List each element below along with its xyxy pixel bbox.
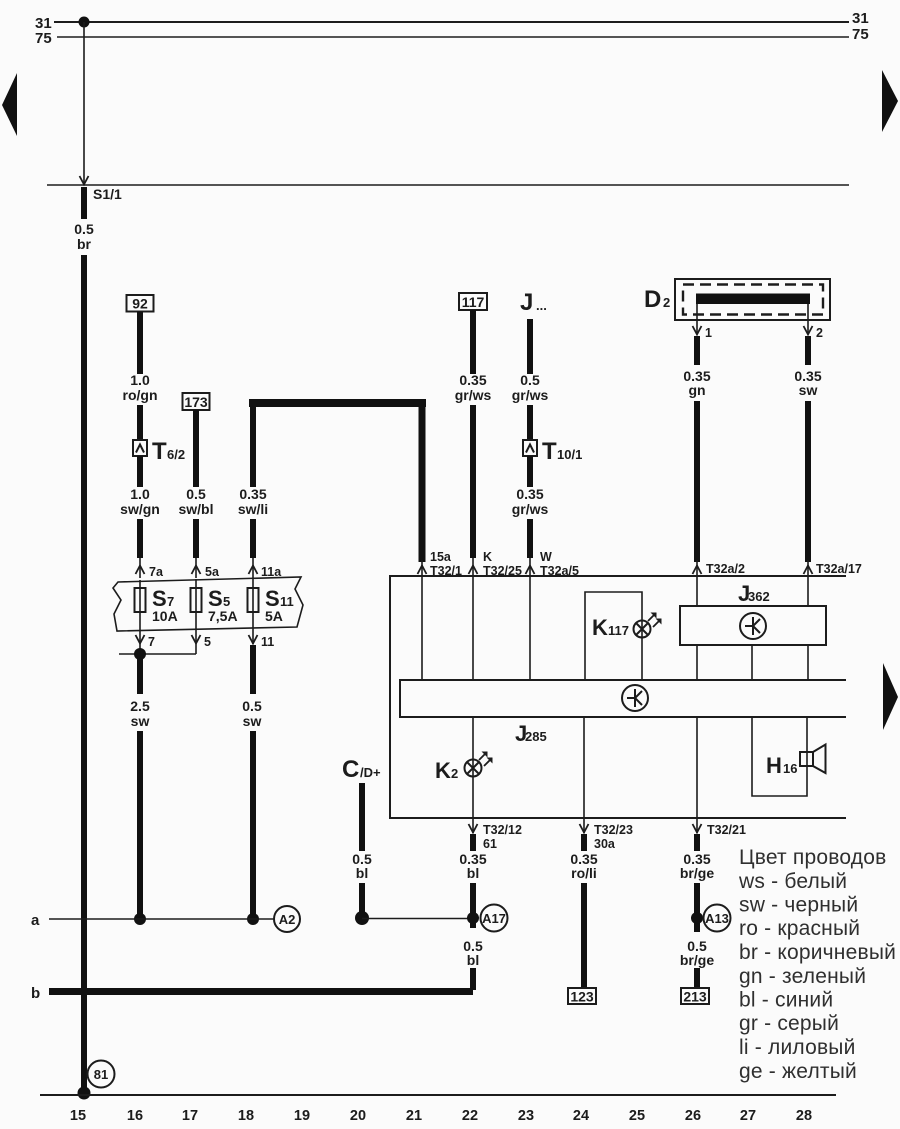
svg-text:1.0: 1.0 <box>130 486 150 502</box>
D2 pin 2 <box>807 304 809 334</box>
wire 0.5 br (track 15) <box>81 187 87 219</box>
svg-text:sw/li: sw/li <box>238 501 268 517</box>
svg-text:18: 18 <box>238 1108 254 1124</box>
svg-text:2: 2 <box>451 766 458 781</box>
svg-text:0.5: 0.5 <box>186 486 206 502</box>
svg-text:ge - желтый: ge - желтый <box>739 1060 857 1083</box>
pin 5 arrow below fuse <box>195 631 197 654</box>
svg-text:bl: bl <box>467 952 479 968</box>
svg-text:27: 27 <box>740 1108 756 1124</box>
svg-text:10/1: 10/1 <box>557 447 582 462</box>
svg-text:K: K <box>592 615 608 640</box>
page-edge arrow left <box>2 73 17 136</box>
svg-text:...: ... <box>536 298 547 313</box>
svg-text:T: T <box>542 438 557 465</box>
svg-text:sw: sw <box>243 713 262 729</box>
D2 outer box <box>675 279 830 320</box>
svg-text:117: 117 <box>608 623 629 638</box>
wire from bus 31 down to S1/1 line <box>83 22 85 183</box>
svg-text:7: 7 <box>167 594 174 609</box>
svg-text:T32a/17: T32a/17 <box>816 562 862 576</box>
svg-text:30a: 30a <box>594 837 616 851</box>
svg-text:2: 2 <box>663 295 670 310</box>
svg-text:31: 31 <box>852 10 869 27</box>
wire 0.35 sw/li hook to T32/1 <box>249 399 426 407</box>
pin T32/23 arrow <box>583 818 585 833</box>
wire 0.35 gn (track 26) <box>694 336 700 365</box>
J285 internal bus bar <box>400 680 846 717</box>
svg-text:5: 5 <box>223 594 230 609</box>
control unit J285 box outline <box>390 576 846 818</box>
terminal box 92 <box>127 295 154 312</box>
terminal circle 81 <box>88 1061 115 1088</box>
svg-text:7: 7 <box>148 635 155 649</box>
svg-text:24: 24 <box>573 1108 589 1124</box>
terminal box 213 <box>681 988 709 1004</box>
svg-text:173: 173 <box>184 394 208 410</box>
hook wire right leg down to J285 <box>419 403 426 562</box>
fuse S11 5A <box>252 579 254 631</box>
svg-text:0.5: 0.5 <box>74 221 94 237</box>
svg-text:T32a/2: T32a/2 <box>706 562 745 576</box>
svg-text:15: 15 <box>70 1108 86 1124</box>
pin T32a/2 arrow <box>696 560 698 576</box>
svg-text:a: a <box>31 912 40 929</box>
junction on bus 31 <box>79 17 90 28</box>
display unit J362 box <box>680 606 826 645</box>
svg-text:0.35: 0.35 <box>516 486 543 502</box>
svg-text:11: 11 <box>280 594 294 609</box>
S1/1 separation line <box>47 184 849 186</box>
svg-text:W: W <box>540 550 552 564</box>
junction dot A13 <box>691 912 703 924</box>
wire 0.35 gr/ws (track 22) <box>470 310 476 374</box>
arrowhead at S1/1 <box>80 176 89 185</box>
J362 lead 2 to bar <box>751 645 753 680</box>
svg-text:D: D <box>644 286 661 313</box>
K117 branch rectangle <box>585 592 642 680</box>
svg-text:sw/gn: sw/gn <box>120 501 160 517</box>
svg-text:br/ge: br/ge <box>680 865 714 881</box>
svg-text:1: 1 <box>705 326 712 340</box>
terminal box 123 <box>568 988 596 1004</box>
pin 11 arrow below fuse <box>252 631 254 644</box>
fuse S7 10A <box>139 580 141 631</box>
svg-text:bl: bl <box>356 865 368 881</box>
pin T32/1 arrow <box>421 560 423 576</box>
svg-text:92: 92 <box>132 296 148 312</box>
wire 0.5 gr/ws (track 23) <box>527 319 533 374</box>
svg-text:285: 285 <box>525 729 547 744</box>
page-edge arrow right top <box>882 70 898 132</box>
pin 7a arrow <box>139 558 141 578</box>
svg-text:sw: sw <box>799 382 818 398</box>
svg-text:sw: sw <box>131 713 150 729</box>
svg-text:ro - красный: ro - красный <box>739 917 860 940</box>
svg-text:61: 61 <box>483 837 497 851</box>
svg-text:5a: 5a <box>205 565 220 579</box>
svg-text:28: 28 <box>796 1108 812 1124</box>
svg-text:sw/bl: sw/bl <box>178 501 213 517</box>
svg-text:H: H <box>766 753 782 778</box>
svg-text:gr/ws: gr/ws <box>512 501 549 517</box>
svg-text:br - коричневый: br - коричневый <box>739 941 896 964</box>
svg-text:S1/1: S1/1 <box>93 186 122 202</box>
wire 0.5 sw (track 18) <box>250 645 256 694</box>
J285 lead to T32/21 <box>696 717 698 818</box>
svg-text:ro/gn: ro/gn <box>123 387 158 403</box>
J362 lead 3 to bar <box>807 645 809 680</box>
J362 display symbol <box>740 613 766 639</box>
svg-text:2.5: 2.5 <box>130 698 150 714</box>
node circle A2 <box>274 906 300 932</box>
svg-text:br/ge: br/ge <box>680 952 714 968</box>
bus 31 line <box>54 21 849 23</box>
svg-text:ro/li: ro/li <box>571 865 597 881</box>
svg-text:0.5: 0.5 <box>520 372 540 388</box>
svg-text:bl - синий: bl - синий <box>739 989 833 1012</box>
svg-text:b: b <box>31 985 40 1002</box>
svg-text:0.35: 0.35 <box>459 372 486 388</box>
svg-text:ws - белый: ws - белый <box>738 870 847 893</box>
J362 lead 1 to bar <box>696 645 698 680</box>
node circle A17 <box>481 905 508 932</box>
J285 internal lead T32/25 <box>472 576 474 680</box>
svg-text:362: 362 <box>748 589 770 604</box>
svg-text:11: 11 <box>261 635 274 649</box>
D2 dashed inner box <box>683 285 823 315</box>
svg-text:10A: 10A <box>152 608 178 624</box>
connector T10/1 <box>523 440 537 456</box>
svg-text:K: K <box>483 550 492 564</box>
fuse S5 7,5A <box>195 579 197 631</box>
svg-text:17: 17 <box>182 1108 198 1124</box>
ground dot at bottom of br wire <box>78 1087 91 1100</box>
wire 1.0 sw/gn <box>137 456 143 487</box>
svg-text:123: 123 <box>570 989 594 1005</box>
svg-text:23: 23 <box>518 1108 534 1124</box>
svg-text:6/2: 6/2 <box>167 447 185 462</box>
pin 7 arrow below fuse <box>139 631 141 650</box>
svg-text:5: 5 <box>204 635 211 649</box>
svg-text:16: 16 <box>127 1108 143 1124</box>
J285 lead to T32/12 <box>472 717 474 818</box>
node line b <box>49 988 473 995</box>
svg-text:7a: 7a <box>149 565 164 579</box>
svg-text:Цвет проводов: Цвет проводов <box>739 846 886 869</box>
wire 2.5 sw (track 16) <box>137 654 143 694</box>
pin 11a arrow <box>252 558 254 578</box>
wire 0.35 br/ge (track 26) <box>694 834 700 851</box>
J285 internal lead T32a/5 <box>529 576 531 680</box>
svg-text:2: 2 <box>816 326 823 340</box>
svg-text:0.35: 0.35 <box>239 486 266 502</box>
svg-text:0.5: 0.5 <box>242 698 262 714</box>
wire 0.35 bl (track 22 lower) <box>470 834 476 851</box>
svg-text:K: K <box>435 758 451 783</box>
bus 75 line <box>57 36 849 38</box>
svg-text:li - лиловый: li - лиловый <box>739 1036 856 1059</box>
node line a2 <box>362 918 472 920</box>
wire 0.5 bl from C/D+ <box>359 783 365 851</box>
svg-text:20: 20 <box>350 1108 366 1124</box>
pin T32/25 arrow <box>472 558 474 576</box>
svg-text:5A: 5A <box>265 608 283 624</box>
pin T32/21 arrow <box>696 818 698 833</box>
bus bar display symbol <box>622 685 648 711</box>
svg-text:br: br <box>77 236 92 252</box>
svg-text:21: 21 <box>406 1108 422 1124</box>
J285 lead to T32/23 <box>583 717 585 818</box>
H16 branch loop <box>752 717 807 796</box>
svg-text:25: 25 <box>629 1108 645 1124</box>
pin T32a/17 arrow <box>807 560 809 576</box>
svg-text:T: T <box>152 438 167 465</box>
svg-text:81: 81 <box>94 1067 108 1082</box>
svg-text:16: 16 <box>783 761 797 776</box>
svg-text:gn: gn <box>688 382 705 398</box>
D2 element bar <box>696 294 810 305</box>
svg-text:gn - зеленый: gn - зеленый <box>739 965 866 988</box>
junction dot A17 <box>467 912 479 924</box>
terminal box 173 <box>183 393 210 410</box>
svg-text:15a: 15a <box>430 550 452 564</box>
svg-text:T32/21: T32/21 <box>707 823 746 837</box>
bottom frame line <box>40 1094 836 1096</box>
J285 internal lead T32a/17 <box>807 576 809 606</box>
svg-text:A17: A17 <box>482 911 506 926</box>
svg-text:1.0: 1.0 <box>130 372 150 388</box>
page-edge arrow right middle <box>883 663 898 730</box>
svg-text:19: 19 <box>294 1108 310 1124</box>
D2 pin 1 <box>696 304 698 334</box>
svg-text:T32/23: T32/23 <box>594 823 633 837</box>
svg-text:J: J <box>520 289 533 316</box>
pin T32a/5 arrow <box>529 558 531 576</box>
terminal box 117 <box>459 293 487 310</box>
svg-text:7,5A: 7,5A <box>208 608 238 624</box>
svg-text:117: 117 <box>462 294 485 310</box>
dot at end of C/D+ wire <box>355 911 369 925</box>
junction dot on line a <box>247 913 259 925</box>
svg-text:75: 75 <box>35 30 52 47</box>
svg-text:26: 26 <box>685 1108 701 1124</box>
J285 internal lead T32a/2 <box>696 576 698 606</box>
wire 1.0 ro/gn <box>137 312 143 375</box>
node line a <box>49 918 274 920</box>
fuse strip <box>113 577 303 631</box>
svg-text:gr/ws: gr/ws <box>512 387 549 403</box>
svg-text:/D+: /D+ <box>360 765 381 780</box>
wire 0.35 gr/ws lower <box>527 456 533 487</box>
wire 0.5 sw/bl <box>193 410 199 487</box>
svg-text:A13: A13 <box>705 911 729 926</box>
node circle A13 <box>704 905 731 932</box>
svg-text:gr/ws: gr/ws <box>455 387 492 403</box>
connector T6/2 <box>133 440 147 456</box>
svg-text:C: C <box>342 756 359 783</box>
svg-text:A2: A2 <box>279 912 296 927</box>
stub wire joining pin 5 to pin 7 <box>119 653 196 655</box>
J285 internal lead T32/1 <box>421 576 423 680</box>
wire 0.35 sw (track 28) <box>805 336 811 365</box>
svg-text:213: 213 <box>683 989 707 1005</box>
svg-text:75: 75 <box>852 26 869 43</box>
pin T32/12 arrow <box>472 818 474 833</box>
pin 5a arrow <box>195 558 197 578</box>
junction dot on line a <box>134 913 146 925</box>
svg-text:T32/12: T32/12 <box>483 823 522 837</box>
svg-text:22: 22 <box>462 1108 478 1124</box>
wire 0.35 ro/li (track 24) <box>581 834 587 851</box>
junction dot below S7 <box>134 648 146 660</box>
svg-text:gr - серый: gr - серый <box>739 1012 839 1035</box>
svg-text:sw - черный: sw - черный <box>739 894 858 917</box>
svg-text:bl: bl <box>467 865 479 881</box>
